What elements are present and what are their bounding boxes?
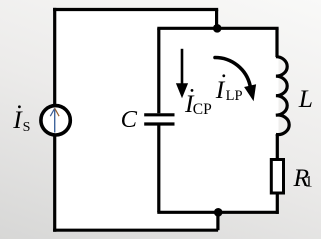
inductor L coil: [276, 57, 289, 135]
label R1: [293, 163, 313, 192]
white interior of inner loop: [157, 27, 279, 214]
label ICP: [184, 89, 212, 118]
svg-text:S: S: [23, 120, 31, 135]
wire: inner bottom horizontal: [157, 211, 278, 214]
svg-text:1: 1: [305, 174, 313, 191]
current source IS circle with arrow: [41, 106, 70, 135]
svg-text:I: I: [12, 105, 23, 134]
wire: capacitor branch lower segment: [157, 125, 160, 212]
node: bottom junction dot: [214, 208, 223, 217]
label C: [121, 106, 138, 133]
current arrow ILP (curved): [215, 58, 256, 102]
svg-text:L: L: [298, 84, 313, 113]
label ILP: [215, 74, 243, 104]
svg-text:LP: LP: [226, 88, 243, 104]
svg-text:C: C: [121, 106, 138, 133]
wire: outer top horizontal: [53, 8, 218, 11]
svg-text:CP: CP: [193, 101, 212, 118]
wire: outer left vertical: [53, 8, 56, 232]
node: top junction dot: [213, 24, 222, 33]
wire: bottom stub from inner bottom wire down to outer loop: [216, 212, 219, 230]
wire: capacitor branch upper segment: [157, 28, 160, 113]
wire: top stub from outer loop down to inner top wire: [215, 10, 218, 29]
label IS (İ with dot, subscript S): [12, 105, 30, 135]
wire: inductor branch upper segment: [275, 28, 278, 57]
svg-text:I: I: [215, 75, 226, 104]
resistor R1 body: [271, 160, 283, 194]
label L: [298, 84, 313, 113]
wire: segment below resistor: [276, 193, 279, 214]
capacitor C plates: [144, 115, 174, 124]
current arrow ICP (straight down): [176, 49, 188, 99]
wire: outer bottom horizontal: [53, 229, 218, 232]
wire: inner top horizontal: [157, 27, 278, 30]
wire: segment between inductor and resistor: [276, 134, 279, 159]
white interior of outer loop: [53, 8, 219, 232]
